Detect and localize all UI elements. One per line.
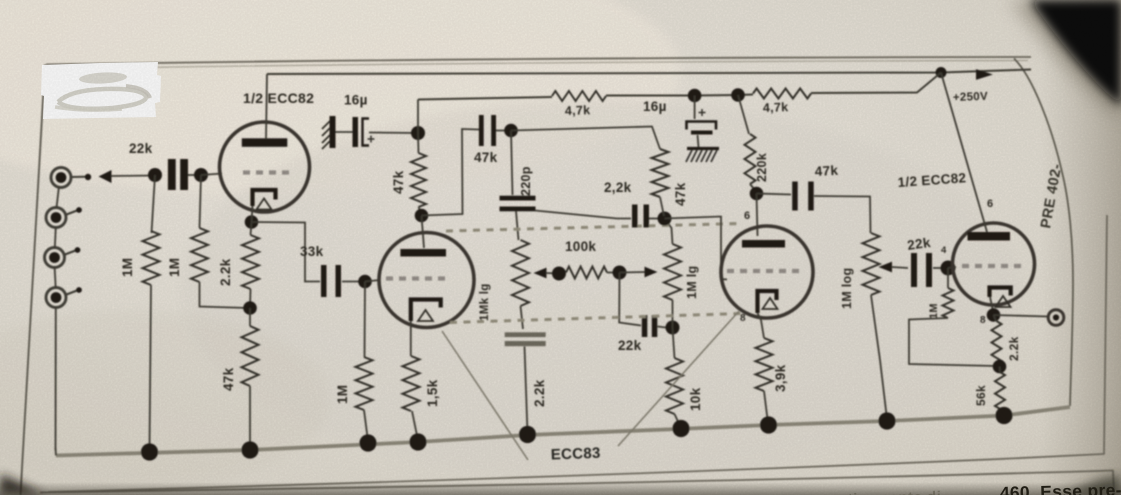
potentiometer P1 1Mk lg [512,240,529,306]
node: V4 cathode [987,308,1001,322]
node: V3 anode [750,187,764,201]
P1 wiper arrow (points left) [534,268,547,279]
P3 wiper to C11 wire [892,267,909,268]
junction: R8 220k on rail B [731,88,745,102]
resistor R8 220k (V3 anode load) [745,134,756,184]
input jack J3 switch pin stub [65,247,80,254]
R5 top lead wire [364,282,367,358]
node to R4 wire [249,308,251,326]
resistor R9 4.7k (rail dropper 2) [753,89,811,99]
R1 to ground bus wire [150,285,152,450]
input jack J2 [46,208,66,228]
capacitor C3 16u (electrolytic, rail B filter) [353,117,375,147]
resistor R14 47k [652,149,669,197]
R3 to node wire [249,289,252,308]
resistor R3 2.2k (V1 cathode) [242,235,259,289]
ganged-pot dashed link (upper) [446,224,740,232]
R10 to ground bus wire [412,411,418,438]
jack J3-J4 wire [55,267,56,288]
P1 bottom to C7 wire [521,306,524,329]
node: R17/R18 junction [993,360,1007,374]
schematic border top echo line [70,61,1028,69]
input jack J1 [51,168,71,188]
bottom dark edge [0,482,1121,495]
warm blotches [0,0,680,195]
C8 to P2 bottom node wire [658,327,667,328]
correction fluid blob [41,62,161,119]
top-right dark corner [1010,0,1121,118]
V4 anode lead wire (diagonal to +250V) [941,73,987,233]
V3 anode lead wire [757,194,758,237]
V3 cathode lead wire [758,313,765,338]
R8 top lead wire [738,95,749,134]
R16 return wire [909,318,996,366]
capacitor C8 22k [642,315,658,337]
node: V1 grid [194,168,208,182]
ground bus wire [56,407,1070,456]
junction: R15 on ground bus [760,416,777,433]
junction: +250V feed node [936,67,947,78]
R6 top lead wire [417,133,420,153]
input jack J2 switch pin stub [67,207,82,214]
V1 anode riser to +250V rail wire [266,74,267,139]
R2 bottom corner wire [200,282,249,308]
V2 anode to coupling riser wire [422,129,480,216]
potentiometer P2 1M lg [664,244,681,300]
C11 to V4 grid node wire [933,267,948,269]
input jack J3 [45,248,65,268]
R5 to ground bus wire [364,410,368,441]
P2 bottom lead wire [672,300,674,328]
resistor R11 2.2k lead wire (drawn straight) [525,347,528,434]
C3 to rail-B node wire [369,132,418,135]
V2 grid stub wire [365,280,380,282]
ganged-pot dashed link (lower) [450,314,742,323]
C5 to node wire [496,130,511,132]
capacitor C2 33k (coupling) [321,265,341,297]
P2 wiper arrow (points right) [645,267,658,278]
jack J1-J2 wire [57,186,60,208]
cathode to C2 wire [252,222,321,282]
C1 to V1 grid node wire [188,174,201,176]
bottom-right dark corner [1062,475,1121,495]
R12 to right node wire [607,272,620,274]
text box top border line [40,471,1114,495]
output jack J5 [1048,310,1064,326]
V4 cathode to output jack wire [994,315,1049,317]
P3 to ground bus wire [871,295,887,419]
capacitor C11 22k (V4 grid coupling) [911,253,932,287]
V1 cathode dot to R3 wire [251,222,252,235]
resistor R12 100k [566,267,607,279]
schematic border bottom line [48,215,1107,492]
capacitor C6 220p [500,196,536,212]
node: V1 cathode [245,215,259,229]
resistor R4 47k (V1 cathode lower) [242,326,259,386]
resistor R10 1.5k (V2 cathode) [403,356,420,411]
R17 top lead wire [994,315,997,321]
jack J2-J3 wire [55,227,56,248]
valve V2 ECC83 (gain stage) [379,233,474,328]
valve V3 ECC83 (gain stage) [721,226,813,318]
resistor R2 1M (grid leak) [191,228,208,282]
V2 cathode lead wire [410,321,412,356]
V4 cathode lead wire [990,297,994,313]
junction: P3 on ground bus [878,412,895,429]
junction: R13 on ground bus [672,420,689,437]
chassis to C3 wire [336,131,353,133]
node: V4 grid [941,261,956,276]
jack J4 to ground bus wire [55,307,57,450]
capacitor C7 (P1 bottom, grey plates) [505,332,546,346]
C9 to V3 grid node wire [649,218,665,220]
R2 top lead wire [200,175,202,228]
V1 cathode lead wire [252,206,253,222]
R13 to ground bus wire [675,414,681,427]
node: R3/R4 junction [243,301,257,315]
valve V1 1/2 ECC82 (cathode follower) [220,122,310,212]
node: V2 anode [415,209,429,223]
node: tone network top [504,124,518,138]
resistor R15 3.9k (V3 cathode) [756,338,773,391]
R15 to ground bus wire [764,391,768,423]
resistor R13 10k [666,358,683,414]
node: R12 right / branch [613,266,627,280]
R14 feed wire from tone network top [511,127,660,150]
rail B wire left segment [418,97,552,100]
resistor R7 4.7k (rail dropper 1) [552,91,606,101]
rail B to +250V node wire [811,73,941,94]
capacitor C10 47k (V3 coupling) [792,182,814,211]
junction: R4 on ground bus [241,441,258,458]
C10 to P3 riser wire [814,196,871,233]
R4 to ground bus wire [249,386,251,448]
rail B corner riser wire [417,100,419,134]
junction: R1 on ground bus [141,443,158,460]
V3 grid wire [665,217,728,280]
V3 anode node to C10 wire [757,194,792,195]
node: V3 grid network [658,212,672,226]
C4 top lead wire [694,96,696,120]
valve V4 1/2 ECC82 (cathode follower) [953,223,1035,307]
capacitor C1 22k (input coupling) [168,159,188,190]
capacitor C9 2,2k [632,205,649,228]
V4 grid stub wire [948,267,956,268]
capacitor C4 16u (electrolytic to ground) [687,109,717,135]
C4 to ground symbol wire [698,135,699,147]
R6 bottom lead wire [419,207,422,214]
C6 to P1 wire [516,211,519,240]
resistor R17 2.2k (V4 cathode upper) [992,321,1002,364]
pointer line to ECC83 label (from V2) [442,331,528,460]
arrow to C1 wire [111,175,155,178]
junction: R10 on ground bus [409,433,426,450]
R1 top lead wire [152,175,156,233]
node: rail B / R6 top [411,126,425,140]
node: input grid junction [148,168,162,182]
C9 left feed wire [535,211,631,219]
schematic border top line [46,57,1031,65]
schematic border right curved line [1014,59,1073,407]
potentiometer P3 1M log (volume) [863,233,880,295]
junction: C4 16u on rail B [688,89,702,103]
arrow on +250V rail (points right) [976,69,993,80]
R18 to ground bus wire [1000,409,1004,414]
P2 top lead wire [665,219,673,245]
+250V rail wire [267,70,1031,75]
R8 bottom lead wire [750,184,757,192]
node: V2 grid [358,275,372,289]
input jack J4 [46,288,66,308]
input jack J4 switch pin stub [67,287,82,294]
input arrow (points left) [99,170,112,183]
P3 wiper arrow (points left) [879,262,893,273]
rail B wire mid segment [606,95,753,96]
junction: R11 on ground bus [519,426,536,443]
V1 grid stub wire [201,174,222,176]
V2 anode lead wire [422,216,425,248]
bottom-left dark corner [0,474,44,495]
C2 to V2 grid node wire [342,281,365,283]
pointer line to ECC83 label (from V3) [618,311,739,446]
P1 wiper to node wire [546,272,559,275]
resistor R5 1M (V2 grid leak) [356,357,373,410]
node to P2 wiper arrow wire [620,271,646,274]
input jack J1 wire and contact blob [72,174,91,180]
schematic border left line [21,65,46,495]
chassis ground symbol (16u return) [322,116,336,149]
R16 top lead wire [947,268,949,288]
resistor R6 47k (V2 anode load) [411,153,426,207]
R18 top lead wire [999,367,1002,373]
node: P1 wiper [552,267,566,281]
R14 bottom lead wire [660,197,664,216]
input jack chain wire [55,448,58,456]
junction: R18 on ground bus [995,407,1012,424]
capacitor C5 47k (V2 anode coupling) [479,115,496,146]
branch riser wire [619,273,641,326]
node: P2 bottom / R13 top [666,321,680,335]
resistor R18 56k (V4 cathode lower) [995,372,1005,409]
R13 top lead wire [673,328,675,359]
junction: R5 on ground bus [359,434,376,451]
node to C6 riser wire [511,131,513,196]
resistor R16 1M (V4 grid leak) [943,288,954,318]
ground symbol (C4) [686,149,719,163]
resistor R1 1M (input load) [143,231,160,285]
